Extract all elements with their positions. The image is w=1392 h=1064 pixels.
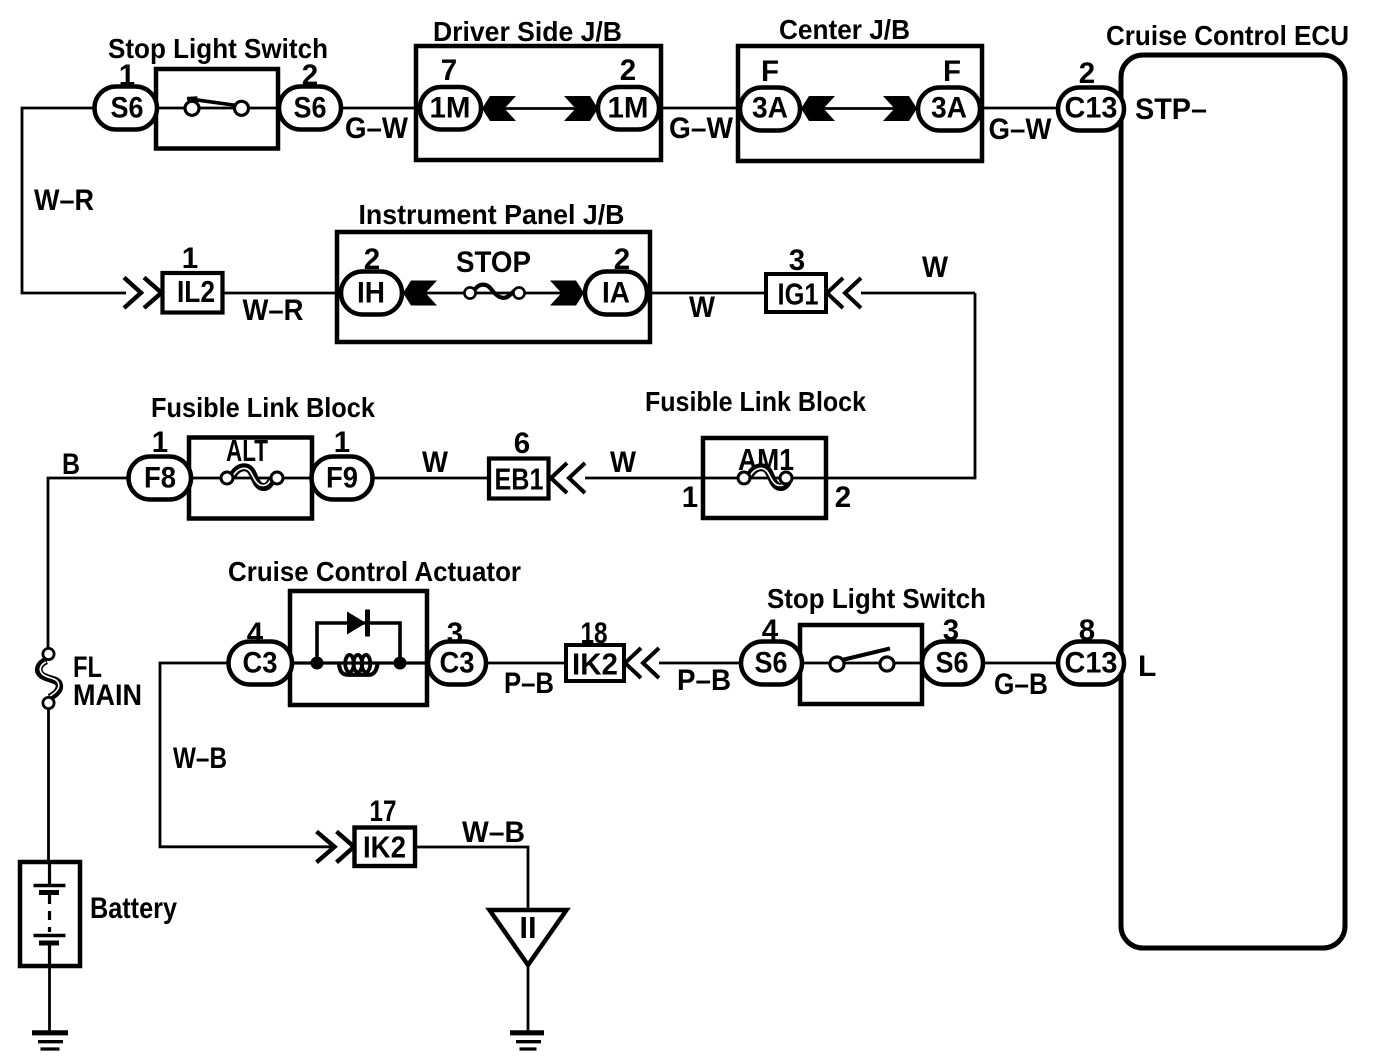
connector C13 pin8 oval bbox=[1058, 642, 1124, 685]
coil (actuator solenoid) bbox=[339, 664, 378, 675]
connector IH oval bbox=[341, 272, 402, 315]
svg-text:P–B: P–B bbox=[677, 664, 731, 697]
svg-text:Battery: Battery bbox=[90, 892, 178, 925]
svg-text:IK2: IK2 bbox=[572, 647, 618, 682]
battery box bbox=[20, 862, 80, 966]
wire IL2 to instrument panel J/B bbox=[222, 292, 339, 295]
svg-text:W: W bbox=[610, 446, 636, 479]
ground triangle II bbox=[490, 910, 567, 965]
svg-text:G–W: G–W bbox=[345, 112, 408, 145]
wire inside center J/B bbox=[800, 107, 918, 110]
wire S6 to C13 bbox=[983, 662, 1060, 665]
svg-text:Fusible Link Block: Fusible Link Block bbox=[645, 386, 866, 417]
wire FL MAIN to battery bbox=[47, 708, 50, 864]
svg-text:18: 18 bbox=[581, 617, 608, 650]
switch contact circle left (top switch) bbox=[185, 101, 199, 115]
chevron arrows into IK2 pin18 bbox=[625, 648, 659, 678]
arrow left (center J/B) bbox=[801, 96, 835, 121]
svg-text:Cruise Control ECU: Cruise Control ECU bbox=[1106, 20, 1349, 51]
wire vertical corner down to AM1 row bbox=[974, 293, 977, 478]
fuse STOP symbol bbox=[475, 285, 516, 298]
wire triangle to ground bbox=[527, 965, 530, 1031]
svg-text:G–W: G–W bbox=[669, 112, 733, 145]
wire inside AM1 box bbox=[703, 477, 826, 480]
connector IA oval bbox=[585, 272, 647, 315]
wire S6 to driver side J/B bbox=[341, 107, 422, 110]
svg-text:6: 6 bbox=[514, 427, 530, 460]
arrow right (driver side J/B) bbox=[564, 96, 598, 121]
svg-text:S6: S6 bbox=[111, 92, 144, 125]
svg-text:W–R: W–R bbox=[243, 294, 304, 327]
connector 1M pin7 oval bbox=[420, 87, 481, 130]
svg-text:2: 2 bbox=[620, 54, 636, 87]
wire center J/B to C13 bbox=[982, 107, 1060, 110]
svg-text:W: W bbox=[422, 446, 448, 479]
svg-text:7: 7 bbox=[441, 54, 457, 87]
svg-text:C3: C3 bbox=[243, 647, 278, 680]
junction dot left bbox=[311, 657, 324, 670]
wire C3 pin4 left and down (W-B branch) bbox=[160, 663, 331, 847]
arrow right (instrument panel J/B) bbox=[550, 281, 584, 306]
fusible link AM1 box bbox=[703, 438, 826, 518]
svg-text:W: W bbox=[689, 291, 715, 324]
svg-text:S6: S6 bbox=[936, 647, 969, 680]
svg-text:G–B: G–B bbox=[994, 668, 1048, 701]
svg-text:F9: F9 bbox=[326, 462, 358, 495]
svg-text:1M: 1M bbox=[430, 92, 471, 125]
battery center dashed link bbox=[48, 895, 51, 932]
svg-text:1: 1 bbox=[334, 426, 350, 459]
wire AM1 to vertical riser bbox=[826, 477, 976, 480]
connector IK2 pin18 box bbox=[566, 645, 624, 681]
cruise control ECU box bbox=[1121, 55, 1345, 948]
svg-text:P–B: P–B bbox=[504, 667, 554, 700]
connector 3A left oval bbox=[740, 88, 800, 131]
chevron arrows into IG1 bbox=[827, 278, 861, 308]
connector IG1 box bbox=[766, 274, 826, 312]
fusible link ALT box bbox=[189, 438, 312, 519]
wire B node to F8 and down to FL MAIN bbox=[48, 478, 130, 650]
svg-text:W–R: W–R bbox=[34, 184, 94, 217]
wire inside top switch box bbox=[156, 107, 278, 110]
svg-text:S6: S6 bbox=[755, 647, 788, 680]
connector F8 oval bbox=[129, 457, 192, 500]
cruise control actuator box bbox=[290, 591, 427, 705]
connector S6 pin2 oval bbox=[279, 87, 341, 130]
wire C3 to IK2 bbox=[486, 662, 566, 665]
diode branch wire bbox=[317, 623, 400, 663]
wire battery to ground bbox=[48, 966, 51, 1031]
wire IG1 to corner bbox=[861, 292, 975, 295]
wire inside ALT box bbox=[189, 477, 312, 480]
wire driver side J/B to center J/B bbox=[661, 107, 742, 110]
driver side J/B box bbox=[416, 46, 661, 160]
battery plate short thick top bbox=[39, 890, 59, 895]
instrument panel J/B box bbox=[337, 232, 650, 342]
svg-text:S6: S6 bbox=[294, 92, 327, 125]
connector EB1 box bbox=[489, 459, 549, 499]
svg-text:C13: C13 bbox=[1065, 647, 1118, 680]
wire W-R from S6 pin 1 down-left to IL2 bbox=[22, 108, 126, 293]
svg-text:C3: C3 bbox=[440, 647, 475, 680]
svg-text:IA: IA bbox=[602, 277, 630, 310]
svg-text:IL2: IL2 bbox=[177, 274, 215, 309]
connector C13 pin2 oval bbox=[1058, 88, 1124, 131]
switch lever (top switch) bbox=[187, 98, 237, 106]
svg-text:B: B bbox=[62, 448, 80, 481]
battery plate long top bbox=[34, 884, 66, 888]
diode bbox=[347, 612, 366, 635]
wire IK2 to S6 bbox=[659, 662, 745, 665]
ground (battery) bbox=[32, 1030, 68, 1035]
arrow left (instrument panel J/B) bbox=[403, 281, 437, 306]
chevron arrows into EB1 bbox=[551, 463, 585, 493]
svg-text:EB1: EB1 bbox=[495, 462, 544, 497]
center J/B box bbox=[738, 46, 982, 161]
svg-text:ALT: ALT bbox=[226, 433, 268, 468]
svg-text:1M: 1M bbox=[608, 92, 649, 125]
svg-text:3: 3 bbox=[789, 244, 805, 277]
svg-text:Instrument Panel J/B: Instrument Panel J/B bbox=[359, 199, 625, 230]
battery plate long bottom bbox=[34, 934, 66, 938]
connector S6 pin4 oval bbox=[741, 642, 802, 685]
svg-text:MAIN: MAIN bbox=[73, 679, 142, 712]
svg-text:2: 2 bbox=[835, 481, 851, 514]
svg-text:3A: 3A bbox=[752, 92, 788, 125]
connector IL2 box bbox=[163, 273, 223, 313]
chevron arrows into IK2 pin17 bbox=[317, 832, 355, 863]
wire inside instrument panel J/B bbox=[402, 292, 585, 295]
switch contact circle right (bottom switch) bbox=[880, 657, 894, 671]
stop light switch (top) box bbox=[156, 69, 278, 149]
ground (right) bbox=[510, 1030, 544, 1035]
svg-text:STP–: STP– bbox=[1135, 93, 1207, 126]
connector C3 pin4 oval bbox=[229, 642, 293, 685]
svg-text:1: 1 bbox=[682, 481, 698, 514]
connector F9 oval bbox=[312, 457, 373, 500]
svg-text:C13: C13 bbox=[1065, 92, 1118, 125]
wire IA to IG1 bbox=[647, 292, 766, 295]
svg-text:Driver Side J/B: Driver Side J/B bbox=[433, 16, 622, 47]
svg-text:F8: F8 bbox=[144, 462, 176, 495]
battery plate short thick bottom bbox=[39, 941, 59, 946]
svg-text:STOP: STOP bbox=[456, 246, 531, 279]
connector IK2 pin17 box bbox=[355, 828, 416, 867]
wire EB1 to AM1 bbox=[585, 477, 705, 480]
switch contact circle right (top switch) bbox=[235, 101, 249, 115]
wire IK2 pin17 to ground triangle bbox=[415, 847, 528, 911]
arrow right (center J/B) bbox=[883, 96, 917, 121]
svg-text:W–B: W–B bbox=[173, 742, 227, 775]
battery internal bottom stub bbox=[48, 945, 51, 966]
wire inside driver side J/B bbox=[481, 107, 598, 110]
svg-text:1: 1 bbox=[182, 242, 198, 275]
battery internal top stub bbox=[48, 862, 51, 884]
switch contact circle left (bottom switch) bbox=[830, 657, 844, 671]
fusible link AM1 symbol bbox=[749, 467, 789, 487]
svg-text:IH: IH bbox=[357, 277, 385, 310]
svg-text:IG1: IG1 bbox=[778, 277, 819, 312]
connector 1M pin2 oval bbox=[598, 87, 659, 130]
arrow left (driver side J/B) bbox=[482, 96, 516, 121]
svg-text:W: W bbox=[922, 251, 948, 284]
connector 3A right oval bbox=[918, 88, 980, 131]
svg-text:W–B: W–B bbox=[462, 816, 525, 849]
svg-text:Stop Light Switch: Stop Light Switch bbox=[108, 33, 328, 64]
chevron arrows into IL2 bbox=[124, 278, 162, 309]
svg-text:IK2: IK2 bbox=[363, 830, 406, 865]
fusible link FL MAIN symbol bbox=[39, 661, 60, 698]
svg-text:Cruise Control Actuator: Cruise Control Actuator bbox=[228, 556, 521, 587]
svg-text:F: F bbox=[943, 55, 961, 88]
wire F9 to EB1 bbox=[372, 477, 490, 480]
fusible link ALT symbol bbox=[232, 467, 272, 487]
svg-text:II: II bbox=[519, 910, 536, 945]
svg-text:G–W: G–W bbox=[989, 113, 1052, 146]
stop light switch (bottom) box bbox=[800, 625, 922, 704]
wire inside bottom switch box bbox=[800, 662, 922, 665]
connector S6 pin1 oval bbox=[95, 87, 158, 130]
svg-text:3A: 3A bbox=[931, 92, 967, 125]
svg-text:Fusible Link Block: Fusible Link Block bbox=[151, 392, 375, 423]
switch lever (bottom switch) bbox=[842, 649, 890, 661]
svg-text:Stop Light Switch: Stop Light Switch bbox=[767, 583, 986, 614]
svg-text:1: 1 bbox=[152, 426, 168, 459]
svg-text:L: L bbox=[1138, 650, 1156, 683]
svg-text:Center J/B: Center J/B bbox=[779, 14, 910, 45]
connector C3 pin3 oval bbox=[428, 642, 486, 685]
junction dot right bbox=[394, 657, 407, 670]
svg-text:2: 2 bbox=[1079, 57, 1095, 90]
svg-text:17: 17 bbox=[370, 795, 397, 828]
connector S6 pin3 oval bbox=[922, 642, 983, 685]
wire inside actuator box bbox=[290, 661, 428, 664]
svg-text:F: F bbox=[761, 55, 779, 88]
